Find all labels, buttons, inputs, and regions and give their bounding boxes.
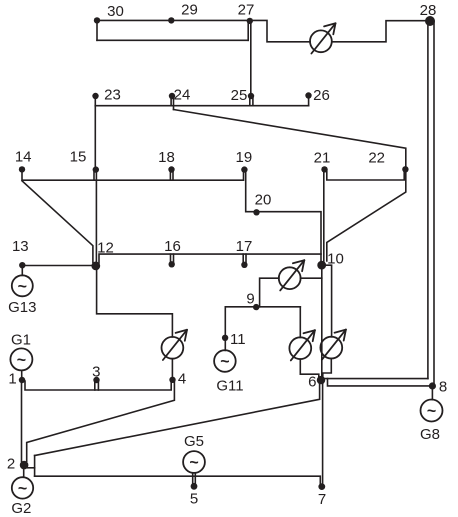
- node 25: [248, 93, 254, 99]
- node 9: [253, 304, 259, 310]
- svg-text:4: 4: [178, 371, 186, 388]
- wire 2-G2 stub: [23, 469, 25, 477]
- wire loop 30-27 right: [247, 20, 249, 40]
- svg-text:20: 20: [255, 192, 272, 209]
- wire 2 junction stub: [28, 467, 35, 469]
- svg-text:9: 9: [246, 291, 254, 308]
- wire stub 25: [249, 96, 251, 106]
- wire 28-8 vertical: [433, 21, 435, 385]
- wire G1-1 stub: [21, 370, 23, 376]
- wire top line 30-29-27: [97, 19, 250, 21]
- wire 8-G8 stub: [431, 390, 433, 400]
- wire meter M2 to 4: [171, 359, 173, 380]
- svg-text:26: 26: [313, 87, 330, 104]
- node 13: [19, 262, 25, 268]
- wire bus 12-16-17-10: [99, 254, 321, 263]
- node 10: [317, 261, 326, 270]
- svg-text:27: 27: [238, 2, 255, 19]
- node 23: [92, 93, 98, 99]
- node 24: [169, 93, 175, 99]
- wire meter M5 to 6: [323, 358, 332, 377]
- wire bus 23-24-25-26: [95, 105, 308, 107]
- svg-text:6: 6: [308, 374, 316, 391]
- svg-text:25: 25: [231, 87, 248, 104]
- wire 6-7 vertical: [322, 382, 324, 485]
- meter M1 on line 27-28: [310, 23, 336, 53]
- svg-text:G2: G2: [11, 500, 31, 517]
- wire 10-6 vertical: [321, 265, 323, 380]
- wire bus 2-5-7: [35, 476, 321, 485]
- node 17: [241, 262, 247, 268]
- node 27: [247, 18, 253, 24]
- node 22: [402, 166, 408, 172]
- node 12: [91, 262, 100, 271]
- svg-text:29: 29: [181, 2, 198, 19]
- wire 19-20-10: [246, 170, 321, 263]
- svg-text:3: 3: [92, 363, 100, 380]
- svg-text:~: ~: [189, 455, 198, 472]
- svg-text:G5: G5: [184, 433, 204, 450]
- wire 11-G11 stub: [224, 338, 226, 351]
- wire 22-10 diagonal: [327, 171, 406, 261]
- wire 23-15 vertical: [94, 96, 96, 170]
- wire stub 24: [170, 96, 172, 106]
- wire meter to 28 step: [332, 21, 430, 42]
- wire 27 to meter step: [250, 20, 310, 41]
- svg-text:14: 14: [15, 148, 32, 165]
- node 26: [305, 92, 311, 98]
- wire 15-12 vertical: [95, 170, 97, 262]
- wire bus 21-22: [327, 169, 404, 180]
- node 15: [93, 166, 99, 172]
- svg-text:16: 16: [164, 238, 181, 255]
- wire bus 9 horizontal: [225, 306, 300, 308]
- wire stub 18 right: [172, 170, 174, 181]
- svg-text:13: 13: [12, 238, 29, 255]
- meter M3 on line 9-10: [279, 260, 304, 290]
- wire 14-12 diagonal: [22, 181, 93, 263]
- wire loop 30-27 left: [96, 20, 98, 40]
- node 14: [19, 166, 25, 172]
- wire meter M4 to 6: [300, 359, 319, 379]
- wire stub 3 left: [94, 382, 96, 391]
- node 5: [191, 483, 198, 490]
- node 2: [20, 461, 29, 470]
- generator G1 circle: [10, 348, 32, 370]
- wire bus 14-15-18-19: [22, 169, 244, 180]
- svg-text:~: ~: [18, 278, 27, 295]
- wire stub 17: [242, 254, 244, 264]
- node 1: [19, 377, 25, 383]
- svg-text:23: 23: [104, 87, 121, 104]
- svg-text:11: 11: [230, 331, 246, 348]
- svg-text:7: 7: [318, 491, 326, 508]
- wire stub 24 right (to 22 diagonal): [173, 96, 175, 110]
- svg-text:G13: G13: [8, 299, 36, 316]
- meter M4 on line 9-6: [289, 330, 315, 360]
- wire 9 to meter M3: [260, 278, 279, 307]
- wire 21-10 vertical: [323, 169, 325, 263]
- wire 9 to meter M4: [299, 307, 301, 338]
- svg-text:G11: G11: [216, 378, 243, 395]
- svg-text:~: ~: [427, 403, 436, 420]
- generator G11 circle: [214, 350, 236, 372]
- wire 1-2 vertical: [21, 380, 23, 462]
- node 29: [168, 17, 174, 23]
- node 18: [168, 166, 174, 172]
- wire stub 18: [169, 170, 171, 181]
- svg-text:28: 28: [420, 2, 437, 19]
- generator G5 circle: [183, 451, 205, 473]
- node 20: [253, 209, 259, 215]
- svg-text:19: 19: [236, 149, 253, 166]
- node 30: [94, 17, 100, 23]
- svg-text:24: 24: [174, 87, 191, 104]
- node 11: [222, 335, 228, 341]
- node 4: [169, 377, 175, 383]
- wire 6-28 horizontal: [324, 378, 428, 380]
- node 28: [425, 16, 435, 26]
- svg-text:18: 18: [158, 149, 175, 166]
- wire stub 26: [308, 96, 310, 106]
- node 19: [241, 166, 247, 172]
- wire 13-12: [22, 265, 96, 267]
- generator G13 circle: [12, 275, 33, 296]
- wire 13-G13 stub: [21, 265, 23, 276]
- wire stub 15 to bus: [93, 170, 95, 181]
- wire 12 to meter M2: [97, 266, 173, 337]
- svg-text:1: 1: [8, 371, 16, 388]
- svg-text:5: 5: [190, 491, 198, 508]
- generator G8 circle: [421, 400, 443, 422]
- wire 2 riser: [34, 456, 36, 477]
- meter M2 on line 12-4: [162, 330, 188, 360]
- wire bus 1-3-4: [25, 381, 171, 390]
- svg-text:10: 10: [327, 251, 344, 268]
- svg-text:8: 8: [439, 379, 447, 396]
- wire 10 to meter M5: [322, 265, 332, 337]
- svg-text:30: 30: [107, 3, 124, 20]
- wire loop 30-27 bottom: [97, 39, 248, 41]
- wire 4-2 diagonal: [27, 381, 175, 462]
- wire 6-8 horizontal: [328, 379, 433, 386]
- node 7: [318, 483, 325, 490]
- wire 28-6 vertical: [427, 21, 429, 379]
- svg-text:21: 21: [314, 150, 331, 167]
- node 8: [429, 382, 436, 389]
- svg-text:G1: G1: [11, 331, 31, 348]
- wire stub 5 left: [192, 473, 194, 485]
- wire meter M3 to 10: [301, 277, 322, 279]
- svg-text:15: 15: [70, 148, 87, 165]
- svg-text:~: ~: [220, 354, 229, 371]
- wire 27-25 vertical: [250, 21, 252, 96]
- svg-text:~: ~: [18, 480, 27, 497]
- node 21: [321, 166, 327, 172]
- node 6: [317, 376, 325, 384]
- wire 24-22 diagonal: [174, 110, 406, 170]
- svg-text:22: 22: [368, 150, 385, 167]
- node 16: [169, 261, 175, 267]
- wire stub 16: [170, 254, 172, 264]
- svg-text:2: 2: [7, 456, 15, 473]
- svg-text:G8: G8: [420, 426, 440, 443]
- wire 9-11 vertical: [224, 307, 226, 338]
- node 3: [93, 377, 99, 383]
- svg-text:~: ~: [17, 352, 26, 369]
- wire stub 25 right: [252, 96, 254, 106]
- wire stub 3 right: [97, 382, 99, 391]
- wire stub 17 right: [245, 254, 247, 264]
- svg-text:17: 17: [236, 238, 253, 255]
- svg-text:12: 12: [97, 240, 114, 257]
- wire stub 16 right: [173, 254, 175, 264]
- wire stub 5 right: [194, 473, 196, 485]
- meter M5 on line 10-6: [320, 330, 346, 360]
- generator G2 circle: [12, 477, 33, 498]
- wire 6-2 diagonal: [35, 382, 320, 456]
